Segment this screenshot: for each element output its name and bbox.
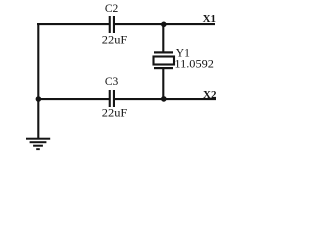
svg-text:C3: C3 [105,76,119,88]
junction: left riser / bottom rail [36,96,42,102]
wire: bottom horizontal, right segment (C3 to X2 end) [114,98,216,100]
wire: bottom horizontal, left segment (left riser to C3) [37,98,110,100]
svg-text:11.0592: 11.0592 [174,58,214,70]
svg-text:C2: C2 [105,3,119,15]
wire: top horizontal, right segment (C2 to X1 end) [114,23,215,25]
junction: top rail / crystal branch [161,22,167,28]
wire: crystal bottom stub (Y1 to bottom rail) [162,68,164,100]
wire: top horizontal, left segment (left riser to C2) [37,23,110,25]
wire: left vertical riser (top rail down to ground) [37,23,39,139]
wire: crystal top stub (top rail to Y1) [162,24,164,53]
svg-text:22uF: 22uF [102,34,128,46]
capacitor C3 (plates) [109,90,115,107]
svg-text:X2: X2 [203,89,217,101]
capacitor C2 (plates) [109,16,115,33]
junction: bottom rail / crystal branch [161,96,167,102]
svg-text:X1: X1 [203,13,216,25]
crystal Y1 (body and plates) [154,51,175,69]
svg-text:22uF: 22uF [102,107,128,119]
ground symbol [26,138,50,150]
